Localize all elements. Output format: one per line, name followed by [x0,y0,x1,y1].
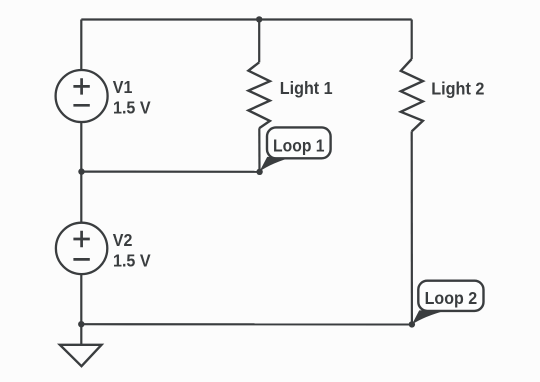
wire top horizontal rail [81,18,411,20]
callout Loop 2 [412,281,484,325]
resistor Light 2 [401,59,423,131]
svg-text:V2: V2 [113,230,133,250]
node B junction dot [256,169,262,175]
wire Light 1 bottom to node B [258,128,260,172]
wire V2 bottom to ground node [80,274,82,324]
svg-text:1.5 V: 1.5 V [113,98,151,118]
node ground junction dot [78,321,84,327]
svg-text:1.5 V: 1.5 V [113,251,151,271]
resistor Light 1 [248,62,270,128]
node A junction dot [78,168,84,174]
voltage source V2 [56,223,107,274]
label Light 1 [280,78,333,98]
svg-text:Loop 1: Loop 1 [273,135,325,155]
svg-text:Light 2: Light 2 [431,78,484,98]
wire Light 2 bottom to node C [411,131,413,324]
node C junction dot [409,321,415,327]
label V1 value [113,77,151,118]
label V2 value [113,230,151,271]
wire middle horizontal [82,171,260,173]
wire bottom horizontal rail [81,323,412,325]
callout Loop 1 [259,127,330,171]
node top junction dot [256,16,262,22]
svg-text:Loop 2: Loop 2 [425,288,478,308]
wire node A to V2 [80,172,82,223]
voltage source V1 [56,70,108,122]
wire top node to Light 1 [258,19,260,62]
wire V1 bottom to node A [80,122,82,172]
svg-text:Light 1: Light 1 [280,78,333,98]
svg-text:V1: V1 [113,77,133,97]
label Light 2 [431,78,484,98]
wire right rail top segment [411,20,413,60]
ground [60,324,102,366]
wire left rail top segment [80,20,82,71]
